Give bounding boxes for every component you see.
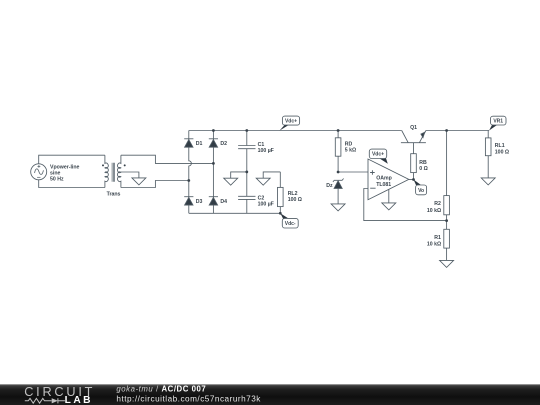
resistor RL2 <box>278 172 284 213</box>
wire mid node to ground (left of C) <box>231 172 247 178</box>
ground below op-amp <box>382 203 396 210</box>
diode D4 <box>209 197 218 205</box>
svg-text:goka-tmu / AC/DC 007: goka-tmu / AC/DC 007 <box>116 384 206 393</box>
feedback wire from minus input to R1/R2 junction <box>364 189 447 221</box>
junction dots <box>187 129 448 222</box>
transformer Trans secondary coil <box>118 155 121 187</box>
transformer secondary phase dot <box>124 164 126 166</box>
wire top of source loop <box>39 155 105 164</box>
svg-text:Vpower-line: Vpower-line <box>50 164 80 170</box>
svg-text:100 µF: 100 µF <box>258 202 274 208</box>
svg-text:R1: R1 <box>434 235 441 241</box>
wire RL2 top to ground <box>263 172 280 178</box>
diode D1 <box>184 139 193 147</box>
svg-text:Q1: Q1 <box>410 125 417 131</box>
transistor Q1 <box>401 131 426 154</box>
svg-text:Vdc+: Vdc+ <box>285 119 297 125</box>
wire bottom of source loop <box>39 180 105 188</box>
transformer Trans primary coil <box>105 155 108 187</box>
svg-text:100 Ω: 100 Ω <box>495 149 509 155</box>
bottom rail wire <box>189 212 280 214</box>
op-amp U1 triangle <box>368 159 409 200</box>
net flag Vo on op-amp output <box>414 180 427 195</box>
ground for RL2 <box>256 178 270 185</box>
svg-text:RB: RB <box>419 160 427 166</box>
svg-text:Trans: Trans <box>107 191 121 197</box>
svg-text:0 Ω: 0 Ω <box>419 166 428 172</box>
svg-text:C1: C1 <box>258 142 265 148</box>
logo resistor-diode squiggle <box>25 398 65 403</box>
svg-text:RL1: RL1 <box>495 143 505 149</box>
voltage source plus sign <box>38 165 41 168</box>
ground at transformer center tap <box>132 178 146 185</box>
ground below RL1 <box>481 178 495 185</box>
svg-text:10 kΩ: 10 kΩ <box>427 242 441 248</box>
svg-text:100 Ω: 100 Ω <box>288 197 302 203</box>
wire transformer center tap to ground <box>121 172 139 178</box>
resistor R2 <box>444 131 450 221</box>
voltage source V1 circle <box>31 164 47 180</box>
voltage source sine squiggle <box>35 169 44 174</box>
transformer primary phase dot <box>102 164 104 166</box>
resistor RD <box>335 131 341 173</box>
svg-text:Dz: Dz <box>326 183 333 189</box>
wire RD junction to op-amp plus input <box>338 171 368 173</box>
wire secondary bottom exit <box>121 181 189 188</box>
diode D2 <box>209 139 218 147</box>
svg-text:D2: D2 <box>220 141 227 147</box>
net flag Vdc+ on top rail <box>280 116 300 131</box>
net flag Vdc- on bottom rail <box>280 213 298 228</box>
ground below Dz <box>331 204 345 211</box>
svg-text:RL2: RL2 <box>288 191 298 197</box>
bridge right rail (vertical) <box>212 131 214 214</box>
op-amp plus input symbol <box>370 170 375 175</box>
voltage source minus sign <box>37 176 40 178</box>
svg-text:100 µF: 100 µF <box>258 148 274 154</box>
svg-text:Vdc-: Vdc- <box>285 221 296 227</box>
svg-text:D3: D3 <box>196 199 203 205</box>
svg-text:Vdc+: Vdc+ <box>372 152 384 158</box>
svg-text:TL081: TL081 <box>376 182 391 188</box>
svg-text:R2: R2 <box>434 201 441 207</box>
transformer core lines <box>112 163 115 182</box>
resistor RB <box>411 154 417 180</box>
diode D3 <box>184 197 193 205</box>
svg-text:5 kΩ: 5 kΩ <box>345 148 356 154</box>
logo diode triangle <box>52 398 58 403</box>
svg-text:VR1: VR1 <box>493 119 503 125</box>
svg-text:sine: sine <box>50 171 60 177</box>
resistor RL1 <box>485 131 491 178</box>
svg-text:OAmp: OAmp <box>376 176 392 182</box>
top rail wire from bridge to Q1 collector <box>189 130 402 132</box>
svg-text:50 Hz: 50 Hz <box>50 177 64 183</box>
ground at capacitor midpoint <box>224 178 238 185</box>
capacitor C1 <box>238 131 255 172</box>
wire op-amp output to RB bottom <box>409 179 414 181</box>
ground below R1 <box>440 260 454 267</box>
bridge left rail (vertical) with hop over top exit wire <box>189 131 192 214</box>
emitter rail wire to RL1 <box>426 130 489 132</box>
op-amp minus input symbol <box>370 187 375 189</box>
op-amp V- pin stem to ground <box>388 189 390 203</box>
capacitor C2 <box>238 172 255 213</box>
svg-text:Vo: Vo <box>418 188 424 194</box>
resistor R1 <box>444 221 450 261</box>
net flag Vdc+ on op-amp V+ <box>369 149 388 164</box>
net flag VR1 on emitter rail <box>489 116 506 130</box>
svg-text:http://circuitlab.com/c57ncaru: http://circuitlab.com/c57ncarurh73k <box>116 394 261 403</box>
svg-text:10 kΩ: 10 kΩ <box>427 208 441 214</box>
svg-text:D4: D4 <box>220 199 227 205</box>
svg-text:LAB: LAB <box>65 395 93 405</box>
svg-text:D1: D1 <box>196 141 203 147</box>
svg-text:RD: RD <box>345 141 353 147</box>
wire secondary top exit <box>121 155 213 163</box>
zener diode Dz <box>333 179 344 204</box>
svg-text:C2: C2 <box>258 196 265 202</box>
